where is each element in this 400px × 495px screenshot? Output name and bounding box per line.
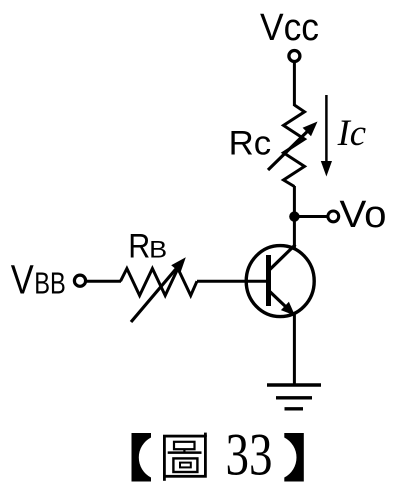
svg-text:Rc: Rc: [229, 124, 272, 162]
base wire RB to transistor: [197, 280, 266, 283]
wire junction to Vo terminal: [294, 215, 327, 218]
wire Vcc terminal to Rc: [293, 62, 296, 106]
svg-text:V: V: [11, 256, 34, 302]
label VBB: [11, 256, 66, 302]
terminal Vo open circle: [328, 211, 339, 222]
svg-text:BB: BB: [34, 266, 65, 300]
svg-text:Vcc: Vcc: [260, 7, 319, 49]
svg-text:Vo: Vo: [340, 194, 387, 236]
resistor Rc (zigzag): [284, 105, 305, 187]
base wire VBB to RB: [87, 280, 122, 283]
transistor collector stroke: [270, 245, 296, 270]
svg-text:B: B: [149, 237, 167, 264]
emitter wire down to ground: [293, 315, 296, 386]
variable-resistor arrow through RB: [131, 257, 186, 322]
terminal Vcc open circle: [289, 51, 300, 62]
terminal VBB open circle: [74, 275, 85, 286]
transistor base bar: [266, 255, 271, 306]
ground bar 1: [267, 383, 321, 386]
svg-text:33: 33: [226, 422, 273, 488]
ground symbol: [267, 385, 321, 409]
variable-resistor arrow through Rc: [268, 122, 318, 171]
wire Rc to junction: [293, 186, 296, 217]
resistor RB (zigzag): [121, 269, 198, 296]
transistor emitter stroke with arrow: [270, 291, 296, 315]
svg-text:Ic: Ic: [337, 112, 367, 153]
caption character 圖: [164, 433, 205, 481]
caption bracket right 】: [284, 433, 304, 482]
transistor Q1 body circle: [246, 246, 314, 317]
junction node (collector / Vo): [289, 211, 299, 221]
caption bracket left 【: [132, 433, 152, 482]
label RB: [128, 228, 167, 266]
current arrow Ic: [321, 95, 332, 177]
ground bar 3: [285, 407, 304, 410]
ground bar 2: [276, 396, 312, 399]
wire junction to transistor collector: [293, 217, 296, 249]
svg-text:R: R: [128, 228, 150, 266]
